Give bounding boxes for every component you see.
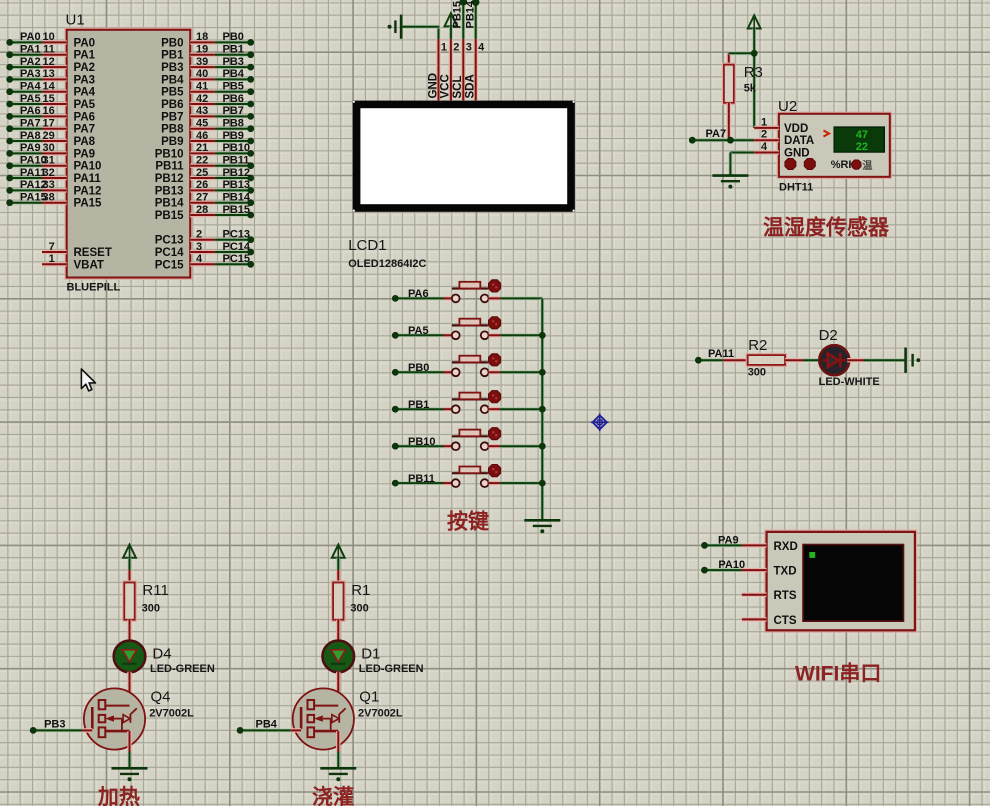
wire button PA6 to bus: [489, 296, 543, 300]
LED D2 (white): [819, 345, 849, 375]
wire Q1 source to ground: [336, 731, 340, 768]
svg-text:PA12: PA12: [74, 185, 102, 197]
svg-text:PA4: PA4: [20, 81, 41, 93]
svg-text:DATA: DATA: [784, 135, 814, 147]
wire button bus: [539, 298, 546, 520]
svg-text:PC15: PC15: [223, 253, 251, 265]
pin name PB8 inside U1: [161, 124, 184, 136]
label DHT11: [779, 182, 813, 194]
svg-text:300: 300: [350, 603, 368, 615]
wire net PA15 to U1 pin 38: [6, 199, 66, 206]
svg-text:PB13: PB13: [155, 185, 184, 197]
pin name PB14 inside U1: [155, 198, 184, 210]
svg-text:3: 3: [196, 241, 202, 253]
wire R3 top to power junction: [729, 51, 754, 55]
pin name PA2 inside U1: [74, 62, 96, 74]
svg-text:4: 4: [478, 42, 485, 54]
svg-text:RXD: RXD: [774, 541, 798, 553]
svg-text:PB14: PB14: [223, 192, 251, 204]
wire net PB10 from U1 pin 21: [190, 150, 254, 157]
wire net PA12 to U1 pin 33: [6, 187, 66, 194]
wire net PB1 from U1 pin 19: [190, 51, 254, 58]
pin name PA8 inside U1: [74, 136, 96, 148]
pin name PB15 inside U1: [155, 210, 184, 222]
svg-text:5k: 5k: [744, 83, 757, 95]
svg-text:PC13: PC13: [223, 229, 251, 241]
LCD1 pin name VCC: [440, 74, 452, 98]
pin name PB13 inside U1: [155, 185, 184, 197]
label Q4 2V7002L: [149, 689, 194, 720]
wire net PB15 from U1 pin 28: [190, 212, 254, 219]
svg-text:WIFI串口: WIFI串口: [795, 662, 881, 686]
pin name PB1 inside U1: [161, 50, 184, 62]
wire D1 to Q1 drain: [336, 672, 340, 731]
wire PB1 to button: [395, 407, 452, 411]
svg-text:43: 43: [196, 105, 208, 117]
node PA11 label and pin number 32: [20, 167, 55, 179]
svg-text:33: 33: [43, 179, 55, 191]
pin name PA1 inside U1: [74, 50, 96, 62]
mouse cursor arrow: [81, 369, 95, 391]
origin marker (blue crosshair): [591, 414, 609, 432]
svg-text:PB9: PB9: [161, 136, 183, 148]
node PA8 label and pin number 29: [20, 130, 55, 142]
svg-text:46: 46: [196, 130, 208, 142]
wire net PC14 from U1 pin 3: [190, 249, 254, 256]
power arrow (DHT11 VDD): [748, 15, 761, 53]
svg-text:PB15: PB15: [452, 1, 464, 29]
svg-text:31: 31: [43, 155, 55, 167]
power VCC arrow: [445, 13, 458, 39]
node PA5 terminal: [392, 325, 429, 339]
svg-text:PB9: PB9: [223, 130, 244, 142]
label R11 value 300: [142, 582, 169, 615]
U2 pin 2 DATA: [754, 129, 814, 148]
wire net PA1 to U1 pin 11: [6, 51, 66, 58]
svg-text:PB7: PB7: [223, 105, 244, 117]
node PA10 label and pin number 31: [20, 155, 55, 167]
wire PB0 to button: [395, 370, 452, 374]
node PB15 label: [452, 1, 464, 29]
svg-text:21: 21: [196, 142, 208, 154]
svg-text:PA7: PA7: [74, 124, 96, 136]
node PB4 terminal: [237, 719, 278, 734]
svg-text:PA1: PA1: [74, 50, 96, 62]
pin name PB12 inside U1: [155, 173, 184, 185]
svg-text:VDD: VDD: [784, 123, 808, 135]
wire SCL net PB15: [460, 0, 468, 39]
pin number 4 and node PC15 label: [196, 253, 250, 265]
pin name PA5 inside U1: [74, 99, 96, 111]
WIFI pin TXD: [742, 566, 797, 578]
svg-text:PC13: PC13: [155, 235, 184, 247]
U2 pin 1 VDD: [754, 116, 808, 134]
U2 pin 4 GND: [754, 141, 809, 160]
svg-text:39: 39: [196, 56, 208, 68]
svg-text:PB14: PB14: [464, 0, 476, 28]
pin number 46 and node PB9 label: [196, 130, 244, 142]
wire net PB12 from U1 pin 25: [190, 175, 254, 182]
wire power to U2 VDD pin: [752, 53, 756, 128]
wire PB4 to Q1 gate: [240, 729, 301, 733]
svg-text:3: 3: [466, 42, 472, 54]
svg-text:29: 29: [43, 130, 55, 142]
svg-text:10: 10: [43, 31, 55, 43]
svg-text:PB4: PB4: [161, 74, 184, 86]
svg-text:R11: R11: [142, 582, 168, 599]
wire button PB11 to bus: [489, 481, 543, 485]
pin name PB6 inside U1: [161, 99, 183, 111]
svg-text:18: 18: [196, 31, 208, 43]
pin name RESET inside U1: [74, 247, 112, 259]
svg-text:4: 4: [761, 141, 768, 153]
op-amp U1 body (BLUEPILL MCU): [67, 30, 191, 278]
svg-text:PB4: PB4: [256, 719, 278, 731]
label Q1 2V7002L: [358, 689, 403, 720]
pin name PB5 inside U1: [161, 87, 184, 99]
svg-text:PC15: PC15: [155, 259, 184, 271]
LCD1 pin 4 stub: [476, 39, 485, 101]
svg-text:2: 2: [453, 42, 459, 54]
LCD1 pin name SDA: [465, 74, 477, 98]
wire PB11 to button: [395, 481, 452, 485]
wire PA11 to R2: [698, 358, 747, 362]
svg-text:DHT11: DHT11: [779, 182, 813, 194]
wire net PB9 from U1 pin 46: [190, 138, 254, 145]
svg-text:D4: D4: [152, 646, 171, 663]
pin number 3 and node PC14 label: [196, 241, 251, 253]
svg-text:22: 22: [196, 155, 208, 167]
node PA15 label and pin number 38: [20, 192, 55, 204]
node PA7 label and pin number 17: [20, 118, 55, 130]
wire net PA9 to U1 pin 30: [6, 150, 66, 157]
svg-text:PB0: PB0: [161, 37, 183, 49]
wire PA5 to button: [395, 333, 452, 337]
wire net PA10 to U1 pin 31: [6, 162, 66, 169]
svg-text:19: 19: [196, 44, 208, 56]
svg-text:PB14: PB14: [155, 198, 184, 210]
svg-text:PB5: PB5: [223, 81, 244, 93]
pin number 43 and node PB7 label: [196, 105, 244, 117]
label chinese: heating: [97, 785, 140, 806]
svg-text:GND: GND: [427, 73, 439, 99]
svg-text:11: 11: [43, 44, 55, 56]
wire button PB0 to bus: [489, 370, 543, 374]
svg-text:PB6: PB6: [223, 93, 244, 105]
DHT11 buttons and labels: [785, 159, 873, 173]
svg-text:U1: U1: [66, 12, 85, 29]
svg-text:PB10: PB10: [223, 142, 251, 154]
svg-text:22: 22: [856, 141, 868, 153]
resistor R3: [724, 53, 734, 140]
svg-text:PB13: PB13: [223, 179, 251, 191]
pin name PC14 inside U1: [155, 247, 184, 259]
LCD1 pin name GND: [427, 73, 439, 99]
push button PB11: [452, 465, 501, 488]
ground (buttons): [524, 520, 560, 533]
svg-text:PB15: PB15: [223, 204, 251, 216]
pin name PB11 inside U1: [155, 161, 184, 173]
ground (Q1): [320, 768, 356, 781]
svg-text:PA9: PA9: [74, 148, 96, 160]
pin name PB10 inside U1: [155, 148, 184, 160]
svg-text:R2: R2: [748, 337, 767, 354]
svg-text:PA7: PA7: [20, 118, 41, 130]
DHT11 display: [824, 127, 885, 153]
svg-text:U2: U2: [778, 98, 797, 115]
svg-text:OLED12864I2C: OLED12864I2C: [348, 258, 426, 270]
svg-text:PB6: PB6: [161, 99, 183, 111]
svg-text:45: 45: [196, 118, 208, 130]
svg-text:CTS: CTS: [774, 615, 797, 627]
svg-text:2: 2: [196, 229, 202, 241]
pin number 27 and node PB14 label: [196, 192, 251, 204]
svg-text:RESET: RESET: [74, 247, 112, 259]
svg-text:PB11: PB11: [223, 155, 250, 167]
svg-text:PA11: PA11: [74, 173, 102, 185]
svg-text:PB10: PB10: [155, 148, 184, 160]
label R2 value 300: [748, 337, 768, 379]
svg-text:2: 2: [761, 129, 767, 141]
pin name PA6 inside U1: [74, 111, 96, 123]
WIFI serial module body: [767, 532, 915, 630]
svg-text:PA8: PA8: [20, 130, 41, 142]
svg-text:PB8: PB8: [161, 124, 184, 136]
pin number 28 and node PB15 label: [196, 204, 250, 216]
op-amp U2 DHT11 body: [779, 114, 890, 177]
pin RESET stub, pin number 7: [42, 241, 67, 253]
pin name PA12 inside U1: [74, 185, 102, 197]
svg-text:PB1: PB1: [161, 50, 184, 62]
label R3 value 5k: [744, 64, 763, 95]
svg-text:VCC: VCC: [440, 74, 452, 98]
LED D1 (green): [323, 641, 355, 673]
svg-text:PA11: PA11: [708, 348, 734, 360]
label BLUEPILL: [67, 282, 121, 294]
svg-text:2V7002L: 2V7002L: [358, 708, 403, 720]
node PA7 terminal: [689, 128, 726, 143]
power arrow (R11 branch): [123, 545, 136, 583]
WIFI pin CTS: [742, 615, 797, 627]
wire net PA8 to U1 pin 29: [6, 138, 66, 145]
node PA10 terminal and wire: [701, 559, 745, 573]
svg-text:PB0: PB0: [223, 31, 244, 43]
label chinese: watering: [312, 786, 354, 806]
svg-text:PA0: PA0: [20, 31, 41, 43]
wire LCD1 GND to ground: [401, 27, 439, 39]
wire net PA5 to U1 pin 15: [6, 101, 66, 108]
pin name PC13 inside U1: [155, 235, 184, 247]
svg-text:42: 42: [196, 93, 208, 105]
pin number 19 and node PB1 label: [196, 44, 244, 56]
svg-text:LCD1: LCD1: [348, 237, 386, 254]
svg-text:TXD: TXD: [774, 566, 797, 578]
svg-text:PB10: PB10: [408, 436, 436, 448]
node PB11 terminal: [392, 473, 435, 487]
svg-text:PA10: PA10: [74, 161, 102, 173]
pin name PA3 inside U1: [74, 74, 96, 86]
push button PB1: [452, 391, 501, 414]
svg-text:PB8: PB8: [223, 118, 244, 130]
wire PB3 to Q4 gate: [33, 729, 92, 733]
LED D4 (green): [114, 641, 146, 673]
svg-text:15: 15: [43, 93, 55, 105]
push button PB0: [452, 354, 501, 376]
pin name PB3 inside U1: [161, 62, 183, 74]
label chinese: WIFI serial port: [795, 662, 881, 686]
svg-text:17: 17: [43, 118, 55, 130]
svg-text:浇灌: 浇灌: [312, 786, 354, 806]
node PA1 label and pin number 11: [20, 44, 55, 56]
svg-text:PA6: PA6: [408, 288, 429, 300]
svg-text:16: 16: [43, 105, 55, 117]
pin number 41 and node PB5 label: [196, 81, 244, 93]
svg-text:PA4: PA4: [74, 87, 96, 99]
wire Q4 source to ground: [127, 731, 131, 768]
label D2 LED-WHITE: [819, 327, 880, 388]
svg-text:PA3: PA3: [74, 74, 96, 86]
svg-text:PB3: PB3: [223, 56, 244, 68]
svg-text:PA5: PA5: [74, 99, 96, 111]
svg-text:4: 4: [196, 253, 203, 265]
node PA12 label and pin number 33: [20, 179, 55, 191]
resistor R1: [333, 583, 343, 620]
svg-text:PA5: PA5: [20, 93, 41, 105]
svg-text:BLUEPILL: BLUEPILL: [67, 282, 121, 294]
svg-text:Q1: Q1: [359, 689, 379, 706]
wire button PB10 to bus: [489, 444, 543, 448]
svg-text:LED-GREEN: LED-GREEN: [359, 663, 424, 675]
svg-text:PC14: PC14: [155, 247, 184, 259]
label D1 LED-GREEN: [359, 646, 424, 676]
wire net PB7 from U1 pin 43: [190, 113, 254, 120]
node PA11 terminal: [695, 348, 734, 364]
label R1 value 300: [350, 582, 370, 615]
svg-text:PA6: PA6: [74, 111, 96, 123]
pin number 18 and node PB0 label: [196, 31, 244, 43]
wire net PA0 to U1 pin 10: [6, 39, 66, 46]
svg-text:PA9: PA9: [20, 142, 41, 154]
WIFI pin RTS: [742, 590, 797, 602]
node junction at VDD: [751, 50, 758, 57]
wire net PA4 to U1 pin 14: [6, 88, 66, 95]
pin name PB9 inside U1: [161, 136, 183, 148]
wire net PA2 to U1 pin 12: [6, 64, 66, 71]
node PA9 terminal and wire: [701, 534, 742, 549]
node PA4 label and pin number 14: [20, 81, 56, 93]
svg-text:PB3: PB3: [161, 62, 183, 74]
pin name PB7 inside U1: [161, 111, 183, 123]
node PA9 label and pin number 30: [20, 142, 55, 154]
svg-text:2V7002L: 2V7002L: [149, 708, 194, 720]
svg-text:1: 1: [49, 253, 55, 265]
wire SDA net PB14: [472, 0, 480, 39]
svg-text:PA3: PA3: [20, 68, 41, 80]
svg-text:D2: D2: [819, 327, 838, 344]
svg-text:41: 41: [196, 81, 208, 93]
LCD1 OLED display body: [353, 101, 575, 212]
node PB1 terminal: [392, 399, 430, 413]
LCD1 pin name SCL: [452, 76, 464, 99]
node PB14 label: [464, 0, 476, 28]
power arrow (R1 branch): [332, 545, 345, 583]
wire net PB0 from U1 pin 18: [190, 39, 254, 46]
svg-text:PB11: PB11: [155, 161, 184, 173]
svg-text:R1: R1: [351, 582, 370, 599]
resistor R2: [748, 355, 785, 365]
pin number 22 and node PB11 label: [196, 155, 249, 167]
svg-text:PA7: PA7: [706, 128, 727, 140]
push button PB10: [452, 428, 501, 451]
wire R2 to D2: [785, 358, 820, 362]
svg-text:PB7: PB7: [161, 111, 183, 123]
node PA5 label and pin number 15: [20, 93, 55, 105]
pin number 40 and node PB4 label: [196, 68, 245, 80]
svg-text:PA2: PA2: [20, 56, 41, 68]
wire button PB1 to bus: [489, 407, 543, 411]
transistor Q4 2V7002L MOSFET: [84, 688, 145, 749]
svg-text:14: 14: [43, 81, 56, 93]
wire net PC15 from U1 pin 4: [190, 261, 254, 268]
svg-text:PB3: PB3: [44, 719, 65, 731]
node PA2 label and pin number 12: [20, 56, 55, 68]
node PA0 label and pin number 10: [20, 31, 55, 43]
svg-text:PA1: PA1: [20, 44, 41, 56]
svg-text:25: 25: [196, 167, 208, 179]
pin number 45 and node PB8 label: [196, 118, 244, 130]
svg-text:SCL: SCL: [452, 76, 464, 99]
svg-text:7: 7: [49, 241, 55, 253]
pin name PB4 inside U1: [161, 74, 184, 86]
label OLED12864I2C: [348, 258, 426, 270]
LCD1 pin 2 stub: [451, 39, 460, 101]
ground (Q4): [112, 768, 148, 781]
wire R1 to D1: [336, 620, 340, 642]
svg-text:温: 温: [862, 159, 872, 172]
svg-text:PB12: PB12: [155, 173, 184, 185]
svg-text:PA5: PA5: [408, 325, 429, 337]
svg-text:LED-GREEN: LED-GREEN: [150, 663, 215, 675]
wire U2 GND to ground: [730, 153, 754, 176]
pin name PA11 inside U1: [74, 173, 102, 185]
svg-text:R3: R3: [744, 64, 763, 81]
svg-text:26: 26: [196, 179, 208, 191]
node PB10 terminal: [392, 436, 436, 450]
svg-text:27: 27: [196, 192, 208, 204]
svg-text:1: 1: [761, 116, 767, 128]
pin name VBAT inside U1: [74, 259, 104, 271]
svg-text:VBAT: VBAT: [74, 259, 104, 271]
node PA6 terminal: [392, 288, 429, 302]
svg-text:300: 300: [142, 603, 160, 615]
wire net PA11 to U1 pin 32: [6, 175, 66, 182]
ground (D2, pointing right): [906, 348, 921, 373]
LCD1 pin 1 stub: [439, 39, 448, 101]
node PB3 terminal: [30, 719, 66, 734]
pin name PB0 inside U1: [161, 37, 183, 49]
wire net PA7 to U1 pin 17: [6, 125, 66, 132]
wire net PB5 from U1 pin 41: [190, 88, 254, 95]
pin number 25 and node PB12 label: [196, 167, 250, 179]
wire net PB8 from U1 pin 45: [190, 125, 254, 132]
svg-text:PA2: PA2: [74, 62, 96, 74]
label chinese: temperature humidity sensor: [763, 216, 890, 240]
svg-text:GND: GND: [784, 148, 810, 160]
pin name PA7 inside U1: [74, 124, 96, 136]
label U1: [66, 12, 85, 29]
svg-text:PB1: PB1: [223, 44, 244, 56]
svg-text:12: 12: [43, 56, 55, 68]
